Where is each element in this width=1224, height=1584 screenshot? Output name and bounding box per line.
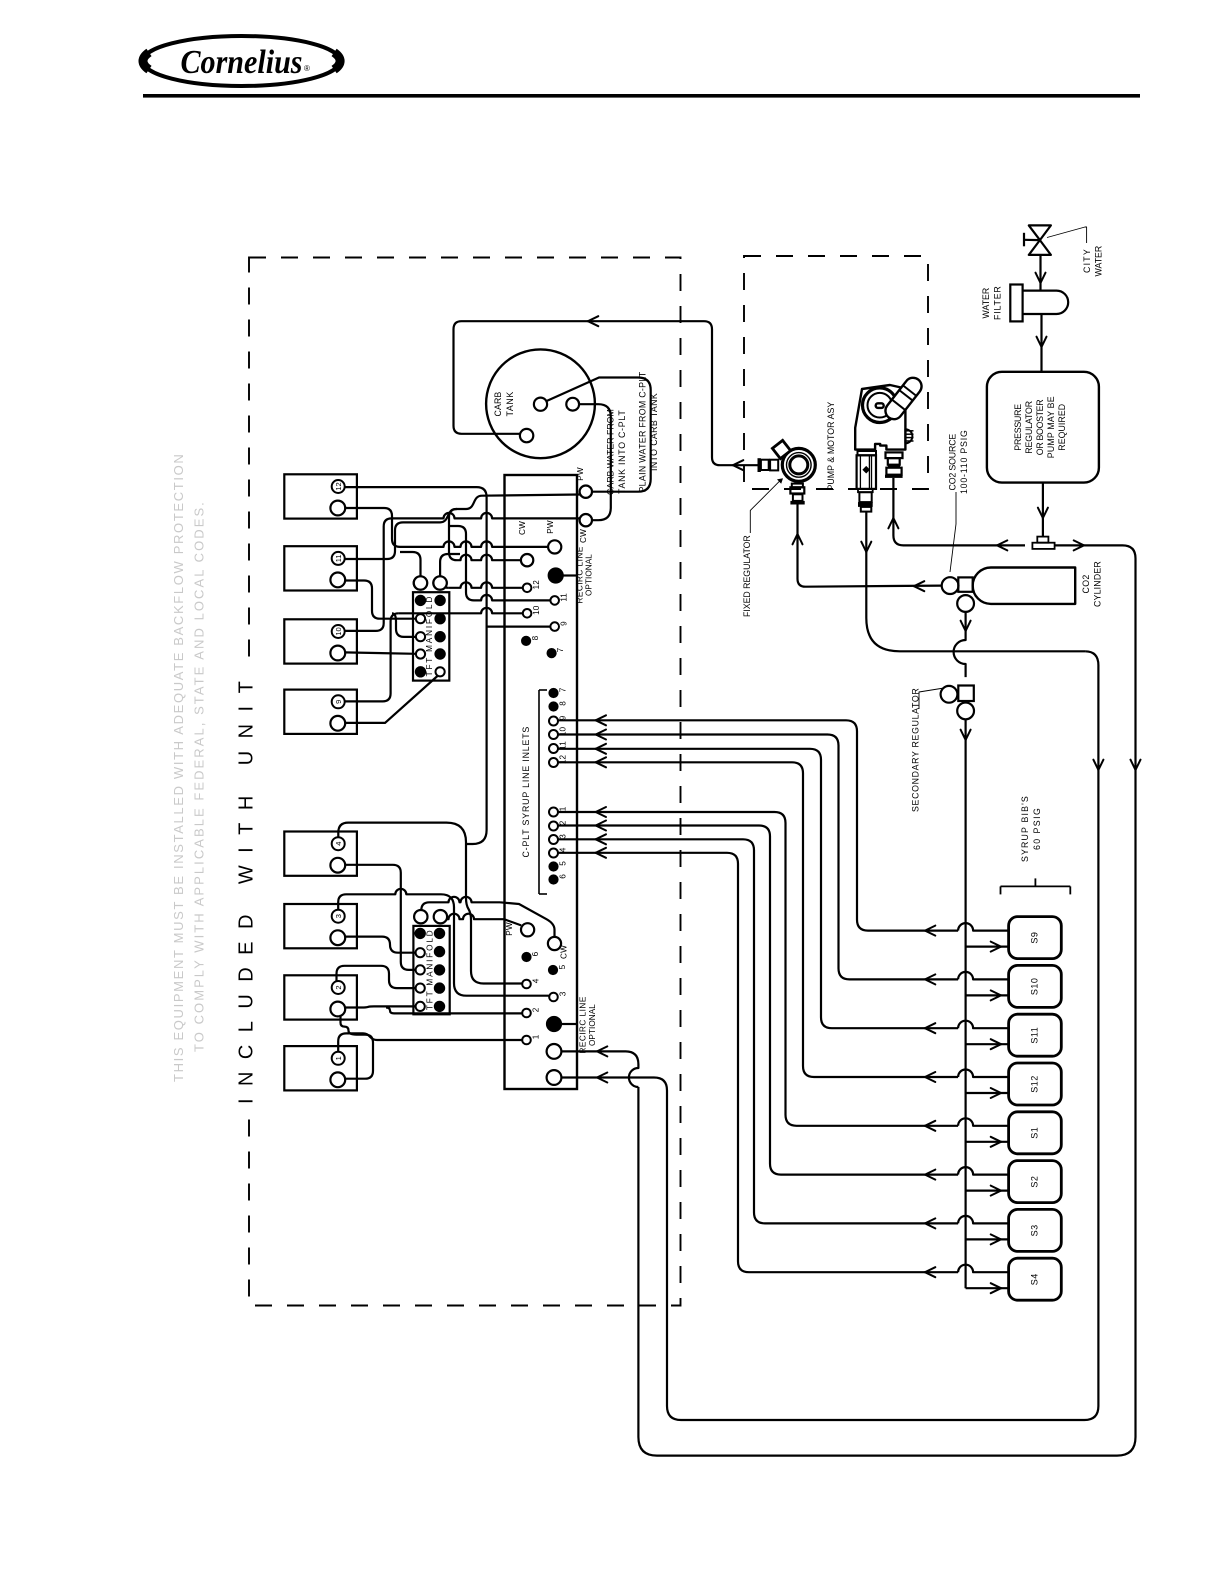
svg-text:9: 9 — [560, 621, 569, 626]
svg-text:FILTER: FILTER — [993, 286, 1003, 320]
svg-text:S10: S10 — [1030, 978, 1040, 996]
svg-text:FIXED REGULATOR: FIXED REGULATOR — [742, 535, 752, 617]
svg-text:TANK: TANK — [505, 392, 515, 417]
svg-text:5: 5 — [559, 861, 568, 866]
svg-text:8: 8 — [531, 635, 540, 640]
svg-text:2: 2 — [532, 1007, 541, 1012]
svg-text:S1: S1 — [1030, 1127, 1040, 1139]
svg-text:S4: S4 — [1030, 1273, 1040, 1285]
svg-text:C-PLT SYRUP LINE INLETS: C-PLT SYRUP LINE INLETS — [521, 727, 531, 858]
svg-text:PUMP MAY BE: PUMP MAY BE — [1046, 396, 1056, 458]
svg-text:PW: PW — [576, 467, 585, 481]
svg-text:6: 6 — [531, 951, 540, 956]
svg-text:11: 11 — [560, 593, 569, 602]
svg-text:12: 12 — [334, 482, 343, 490]
svg-text:PUMP & MOTOR ASY: PUMP & MOTOR ASY — [826, 402, 836, 491]
svg-text:6: 6 — [559, 874, 568, 879]
svg-text:RECIRC LINE: RECIRC LINE — [576, 546, 585, 603]
svg-text:Cornelius: Cornelius — [181, 44, 303, 81]
svg-text:1: 1 — [334, 1056, 343, 1060]
svg-text:S2: S2 — [1030, 1176, 1040, 1188]
svg-text:PW: PW — [546, 520, 555, 534]
svg-text:8: 8 — [559, 701, 568, 706]
svg-text:REGULATOR: REGULATOR — [1024, 401, 1034, 454]
svg-text:CITY: CITY — [1082, 249, 1092, 273]
svg-text:S12: S12 — [1030, 1075, 1040, 1093]
svg-text:CARB: CARB — [493, 392, 503, 417]
svg-text:OPTIONAL: OPTIONAL — [585, 554, 594, 596]
svg-text:THIS EQUIPMENT MUST BE INSTALL: THIS EQUIPMENT MUST BE INSTALLED WITH AD… — [171, 454, 186, 1082]
svg-text:PRESSURE: PRESSURE — [1013, 404, 1023, 451]
svg-text:OPTIONAL: OPTIONAL — [588, 1004, 597, 1046]
svg-text:CW: CW — [579, 529, 588, 543]
svg-text:7: 7 — [559, 687, 568, 692]
svg-text:WATER: WATER — [1094, 246, 1104, 277]
svg-text:9: 9 — [334, 700, 343, 704]
svg-text:WATER: WATER — [981, 288, 991, 319]
svg-text:SYRUP BIB'S: SYRUP BIB'S — [1020, 796, 1030, 862]
svg-text:CW: CW — [560, 945, 569, 959]
svg-text:100-110 PSIG: 100-110 PSIG — [959, 430, 969, 494]
svg-text:1: 1 — [532, 1034, 541, 1039]
svg-text:TFT MANIFOLD: TFT MANIFOLD — [425, 596, 434, 676]
svg-text:10: 10 — [532, 605, 541, 615]
svg-text:CO2: CO2 — [1081, 575, 1091, 594]
svg-text:CYLINDER: CYLINDER — [1093, 561, 1103, 607]
svg-text:11: 11 — [334, 555, 343, 563]
svg-text:INTO CARB TANK: INTO CARB TANK — [649, 393, 659, 471]
svg-text:S3: S3 — [1030, 1224, 1040, 1236]
svg-text:4: 4 — [532, 978, 541, 983]
svg-text:CO2 SOURCE: CO2 SOURCE — [948, 434, 958, 491]
svg-text:S11: S11 — [1030, 1027, 1040, 1044]
svg-text:60 PSIG: 60 PSIG — [1032, 808, 1042, 850]
svg-text:4: 4 — [559, 847, 568, 852]
svg-text:1: 1 — [559, 806, 568, 811]
svg-text:S9: S9 — [1030, 932, 1040, 944]
svg-text:®: ® — [304, 64, 310, 73]
svg-text:RECIRC LINE: RECIRC LINE — [579, 996, 588, 1053]
svg-text:CARB WATER FROM: CARB WATER FROM — [606, 409, 616, 495]
svg-text:3: 3 — [559, 991, 568, 996]
svg-text:5: 5 — [558, 964, 567, 969]
svg-text:PLAIN WATER FROM C-PLT: PLAIN WATER FROM C-PLT — [638, 371, 648, 492]
svg-text:3: 3 — [559, 834, 568, 839]
svg-text:4: 4 — [334, 842, 343, 846]
svg-text:3: 3 — [334, 914, 343, 918]
svg-text:CW: CW — [518, 521, 527, 535]
svg-text:OR BOOSTER: OR BOOSTER — [1035, 399, 1045, 455]
svg-text:2: 2 — [334, 985, 343, 989]
svg-text:PW: PW — [505, 922, 514, 936]
svg-text:7: 7 — [556, 647, 565, 652]
svg-text:12: 12 — [532, 580, 541, 590]
svg-text:TANK INTO C-PLT: TANK INTO C-PLT — [617, 410, 627, 494]
svg-text:TFT MANIFOLD: TFT MANIFOLD — [425, 930, 434, 1010]
svg-text:REQUIRED: REQUIRED — [1057, 404, 1067, 451]
svg-text:10: 10 — [334, 627, 343, 635]
svg-text:TO COMPLY WITH APPLICABLE FEDE: TO COMPLY WITH APPLICABLE FEDERAL, STATE… — [192, 502, 207, 1052]
